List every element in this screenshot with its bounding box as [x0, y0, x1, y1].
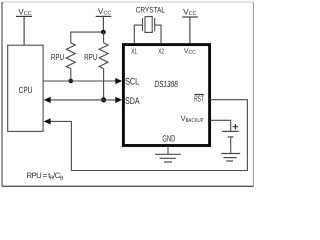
wire SCL (CPU to DS1388)	[43, 80, 116, 82]
pin RST (active low)	[194, 94, 204, 104]
arrowhead SCL into DS1388	[115, 78, 122, 84]
svg-text:RPU: RPU	[84, 52, 97, 62]
node junction on VCC2 rail	[101, 30, 106, 35]
svg-text:SDA: SDA	[125, 96, 140, 107]
resistor RPU (left pull-up, SCL)	[51, 43, 75, 69]
svg-text:X2: X2	[158, 46, 164, 55]
svg-text:RPU = tR/CB: RPU = tR/CB	[27, 171, 64, 181]
power VCC1 (above CPU)	[16, 7, 32, 17]
wire VCC3 to VCC pin	[189, 17, 191, 44]
wire RST return path (RST pin to CPU)	[49, 100, 248, 171]
arrowhead SDA into CPU	[44, 97, 51, 103]
wire GND pin to ground	[167, 146, 169, 154]
wire SDA (CPU to DS1388)	[49, 99, 116, 101]
wire top rail to left pull-up	[71, 32, 104, 43]
IC U1 DS1388 box	[123, 45, 209, 146]
ground (GND pin)	[155, 154, 181, 162]
ground (battery)	[221, 154, 240, 162]
power VCC3 (above DS1388 VCC pin)	[182, 8, 198, 18]
svg-text:RPU: RPU	[51, 52, 64, 62]
wire RPU right to SDA node	[103, 69, 105, 100]
battery plus sign	[233, 124, 238, 129]
svg-text:GND: GND	[162, 133, 175, 143]
svg-text:DS1388: DS1388	[154, 79, 178, 89]
node junction SCL	[69, 79, 74, 84]
wire VCC2 down to junction	[102, 16, 104, 32]
arrowhead RST into CPU	[44, 118, 51, 124]
CPU block	[8, 45, 43, 131]
wire RPU left to SCL node	[70, 69, 72, 81]
svg-text:RST: RST	[194, 94, 204, 104]
border frame	[2, 2, 253, 186]
crystal Y1	[134, 17, 161, 44]
svg-text:X1: X1	[131, 46, 137, 55]
svg-text:SCL: SCL	[125, 76, 140, 87]
power VCC2 (above pull-up resistors)	[96, 7, 112, 17]
battery B1	[222, 131, 239, 153]
wire VBACKUP to battery	[210, 120, 231, 131]
arrowhead SDA into DS1388	[115, 97, 122, 103]
svg-text:CPU: CPU	[19, 85, 33, 95]
svg-text:CRYSTAL: CRYSTAL	[136, 5, 166, 14]
resistor RPU (right pull-up, SDA)	[84, 43, 108, 69]
svg-text:VCC: VCC	[184, 48, 196, 56]
wire junction to right pull-up	[103, 32, 105, 43]
wire VCC1 to CPU	[23, 16, 25, 45]
node junction SDA	[101, 97, 106, 102]
